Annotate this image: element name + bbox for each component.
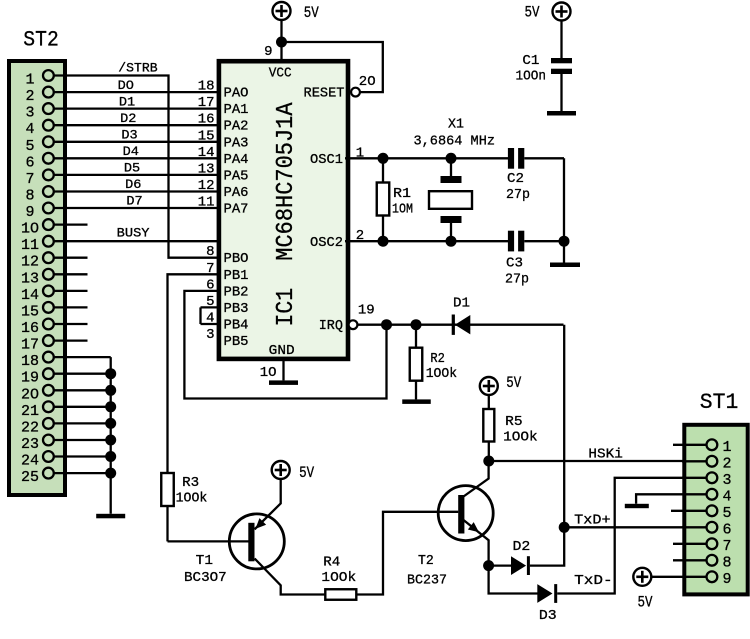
ST2 pin 25 [43, 468, 54, 479]
ST2 pin 1 [43, 70, 54, 81]
junction dot OSC1-X1 [446, 153, 457, 164]
IC U1 MC68HC705J1A body [219, 61, 348, 359]
wire IRQ row [358, 324, 564, 326]
ST2 pin 5 [43, 136, 54, 147]
svg-text:19: 19 [21, 370, 39, 387]
svg-text:PB3: PB3 [224, 301, 249, 317]
svg-text:BC3O7: BC3O7 [184, 571, 227, 586]
svg-text:16: 16 [21, 320, 39, 337]
wire pin10 stub [54, 223, 88, 225]
ST2 pin 24 [43, 451, 54, 462]
svg-text:1OOk: 1OOk [426, 367, 457, 382]
svg-text:6: 6 [25, 154, 34, 171]
svg-text:17: 17 [21, 337, 39, 354]
ST1 pin 4 [707, 489, 718, 500]
wire pin15 stub [54, 306, 88, 308]
transistor T1 circle [229, 514, 284, 569]
wire D2 to TxD+ corner [530, 527, 564, 565]
svg-text:TxD-: TxD- [574, 574, 613, 589]
wire emitter to D3 [489, 566, 538, 594]
svg-text:ST1: ST1 [700, 389, 739, 415]
svg-text:D3: D3 [539, 609, 557, 624]
svg-text:PA4: PA4 [224, 152, 249, 168]
diode D3 [537, 584, 552, 603]
wire D4 [54, 157, 217, 159]
svg-text:24: 24 [21, 453, 39, 470]
svg-text:18: 18 [21, 353, 39, 370]
svg-text:T1: T1 [196, 554, 213, 569]
ST2 pin 6 [43, 153, 54, 164]
connector ST2 [9, 61, 65, 495]
junction dot T2 emitter [483, 560, 494, 571]
svg-text:5V: 5V [304, 4, 320, 22]
wire VCC pin9 [280, 42, 282, 62]
svg-text:T2: T2 [418, 554, 434, 569]
wire emitter to D2 [489, 564, 512, 566]
junction dot rail pin22 [105, 418, 116, 429]
svg-text:PA7: PA7 [224, 202, 249, 218]
pin circle RESET [351, 88, 360, 97]
svg-text:R1: R1 [393, 186, 411, 202]
svg-text:5: 5 [722, 505, 731, 522]
ST2 pin 22 [43, 418, 54, 429]
ST1 pin 9 [707, 571, 718, 582]
svg-text:DO: DO [118, 78, 135, 93]
wire D7 [54, 207, 217, 209]
junction dot OSC2-X1 [446, 236, 457, 247]
wire D2 [54, 124, 217, 126]
ST2 pin 11 [43, 236, 54, 247]
wire 5V to C1 [560, 20, 562, 58]
resistor R2 [415, 325, 417, 348]
svg-text:9: 9 [722, 571, 731, 588]
svg-text:9: 9 [25, 204, 34, 221]
wire OSC2 row [345, 240, 509, 242]
wire ST1 pin8 stub [673, 559, 706, 561]
svg-text:PBO: PBO [224, 251, 249, 267]
wire GND pin10 [282, 360, 284, 381]
junction dot HSKi [483, 456, 494, 467]
ST2 pin 2 [43, 87, 54, 98]
T1 emitter arrow [255, 518, 266, 529]
T2 base bar [458, 495, 464, 534]
wire D0 [54, 91, 217, 93]
ST2 pin 14 [43, 286, 54, 297]
wire D1 [54, 107, 217, 109]
wire pin19 to ground rail [54, 373, 111, 375]
ST1 pin 5 [707, 505, 718, 516]
ST1 pin 8 [707, 555, 718, 566]
svg-text:5V: 5V [299, 464, 315, 482]
capacitor C2 [508, 148, 514, 169]
svg-text:PB2: PB2 [224, 284, 249, 300]
svg-text:1OOk: 1OOk [321, 571, 356, 586]
wire PB2 to R3 [168, 274, 218, 473]
wire D1 to TxD+ riser [563, 325, 565, 528]
ST2 pin 4 [43, 120, 54, 131]
svg-text:C3: C3 [506, 255, 523, 271]
svg-text:11: 11 [21, 237, 39, 254]
wire ground rail vertical [110, 357, 112, 514]
svg-text:X1: X1 [448, 117, 464, 133]
svg-text:PAO: PAO [224, 86, 249, 102]
svg-text:C2: C2 [507, 171, 524, 187]
svg-text:22: 22 [21, 419, 39, 436]
wire D6 [54, 190, 217, 192]
ST2 pin 7 [43, 170, 54, 181]
svg-text:25: 25 [21, 469, 39, 486]
ST1 pin 6 [707, 522, 718, 533]
svg-text:27p: 27p [506, 187, 530, 203]
wire pin13 stub [54, 273, 88, 275]
svg-text:1: 1 [25, 72, 34, 89]
svg-text:27p: 27p [505, 272, 529, 288]
pin circle IRQ [349, 320, 358, 329]
junction dot rail pin23 [105, 435, 116, 446]
svg-text:2O: 2O [21, 386, 39, 403]
wire C2-C3 vertical [563, 158, 565, 241]
svg-text:1O: 1O [21, 221, 39, 238]
svg-text:15: 15 [21, 303, 39, 320]
diode D1 [452, 315, 455, 335]
ST1 pin 2 [707, 456, 718, 467]
wire pin16 stub [54, 323, 88, 325]
svg-text:D2: D2 [120, 111, 136, 126]
T1 base bar [248, 523, 254, 562]
svg-text:4: 4 [722, 488, 731, 505]
svg-text:19: 19 [358, 303, 375, 319]
svg-text:PA2: PA2 [224, 119, 249, 135]
ST2 pin 10 [43, 219, 54, 230]
wire RESET loop [286, 42, 383, 92]
wire to ground OSC [563, 241, 565, 262]
ST2 pin 15 [43, 302, 54, 313]
svg-text:GND: GND [269, 343, 295, 359]
svg-text:OSC1: OSC1 [310, 152, 343, 168]
ST2 pin 3 [43, 103, 54, 114]
svg-text:2: 2 [25, 88, 34, 105]
svg-text:HSKi: HSKi [588, 447, 622, 462]
svg-text:23: 23 [21, 436, 39, 453]
svg-text:D3: D3 [121, 128, 137, 143]
resistor R5 [488, 394, 490, 409]
junction dot OSC2-R1 [378, 236, 389, 247]
svg-text:BUSY: BUSY [117, 226, 150, 241]
wire pin21 to ground rail [54, 406, 111, 408]
wire pin20 to ground rail [54, 389, 111, 391]
ST2 pin 20 [43, 385, 54, 396]
junction dot rail pin20 [105, 385, 116, 396]
wire pin25 to ground rail [54, 472, 111, 474]
wire pin22 to ground rail [54, 422, 111, 424]
wire ST1 pin7 stub [673, 543, 706, 545]
T1 emitter wire to 5V [255, 479, 281, 530]
ST2 pin 23 [43, 435, 54, 446]
svg-text:2O: 2O [359, 74, 376, 90]
svg-text:RESET: RESET [304, 85, 345, 101]
wire pin17 stub [54, 339, 88, 341]
power 5V at R5 [480, 377, 498, 395]
svg-text:TxD+: TxD+ [574, 514, 610, 529]
ground symbol IC GND [269, 380, 298, 385]
wire C3 to junction [524, 240, 564, 242]
crystal X1 [450, 158, 452, 176]
power 5V at C1 [553, 3, 571, 21]
resistor R3 [161, 473, 174, 506]
ST2 pin 17 [43, 335, 54, 346]
wire pin23 to ground rail [54, 439, 111, 441]
svg-text:1: 1 [722, 439, 731, 456]
svg-text:/STRB: /STRB [118, 61, 157, 76]
ground symbol C1 [547, 111, 576, 116]
wire R3 to T1 base [168, 540, 250, 542]
ST1 pin 1 [707, 439, 718, 450]
svg-text:C1: C1 [522, 53, 539, 69]
svg-text:9: 9 [264, 44, 272, 60]
svg-text:7: 7 [722, 538, 731, 555]
T2 emitter arrow [468, 522, 479, 532]
wire ST1 pin1 stub [673, 444, 706, 446]
svg-text:8: 8 [722, 554, 731, 571]
T2 emitter wire [464, 520, 489, 566]
wire 5V stem [280, 20, 282, 42]
power 5V at T1 [272, 461, 290, 479]
svg-text:3,6864 MHz: 3,6864 MHz [414, 134, 496, 150]
svg-text:R3: R3 [182, 476, 199, 491]
resistor R1 [382, 158, 384, 182]
svg-text:PA6: PA6 [224, 185, 249, 201]
T1 collector wire [255, 559, 326, 595]
wire BUSY pin11 to PB0 [54, 240, 217, 242]
svg-text:PA3: PA3 [224, 135, 249, 151]
svg-text:PB1: PB1 [224, 268, 249, 284]
wire C1 to ground [560, 74, 562, 111]
svg-text:PB4: PB4 [224, 318, 249, 334]
wire OSC1 row [345, 157, 509, 159]
T2 collector wire [464, 461, 489, 497]
ST1 pin 7 [707, 538, 718, 549]
wire D5 [54, 174, 217, 176]
svg-text:8: 8 [25, 188, 34, 205]
wire ST1 pin2 HSKi segment [682, 460, 706, 462]
svg-text:OSC2: OSC2 [310, 235, 343, 251]
ST1 pin 3 [707, 472, 718, 483]
capacitor C1 [551, 58, 572, 63]
svg-text:R5: R5 [505, 415, 522, 430]
svg-text:D5: D5 [124, 161, 140, 176]
svg-text:D1: D1 [119, 94, 136, 109]
svg-text:13: 13 [21, 270, 39, 287]
svg-text:ST2: ST2 [23, 27, 59, 53]
wire pin14 stub [54, 290, 88, 292]
svg-text:1OOk: 1OOk [176, 492, 208, 507]
svg-text:6: 6 [722, 521, 731, 538]
wire TxD+ to ST1 pin6 [564, 526, 705, 528]
ST2 pin 13 [43, 269, 54, 280]
svg-text:5V: 5V [506, 374, 522, 392]
power 5V at ST1 pin9 [633, 568, 651, 586]
ST2 pin 12 [43, 252, 54, 263]
svg-text:2: 2 [722, 455, 731, 472]
svg-text:D6: D6 [125, 177, 141, 192]
svg-text:5: 5 [25, 138, 34, 155]
svg-text:D7: D7 [126, 194, 142, 209]
svg-text:21: 21 [21, 403, 39, 420]
wire pin12 stub [54, 257, 88, 259]
svg-text:D2: D2 [513, 540, 531, 555]
svg-text:5V: 5V [638, 594, 654, 612]
svg-text:3: 3 [206, 327, 214, 343]
ground symbol ST2 rail [96, 514, 125, 519]
wire ST1 pin5 stub [671, 510, 706, 512]
svg-text:1O: 1O [260, 365, 277, 381]
junction dot OSC1-R1 [378, 153, 389, 164]
junction dot IRQ-R2 [411, 319, 422, 330]
svg-text:14: 14 [21, 287, 39, 304]
signal ground bar pin4 [625, 504, 649, 508]
transistor T2 circle [438, 486, 493, 541]
ST2 pin 19 [43, 368, 54, 379]
wire ST1 pin6 segment [682, 526, 706, 528]
ST2 pin 21 [43, 401, 54, 412]
svg-text:D4: D4 [123, 144, 140, 159]
svg-text:R4: R4 [323, 556, 340, 571]
svg-text:PA5: PA5 [224, 168, 249, 184]
svg-text:MC68HC705J1A: MC68HC705J1A [273, 102, 300, 261]
wire R4 to T2 base [356, 512, 458, 595]
svg-text:5V: 5V [525, 4, 541, 22]
junction dot rail pin25 [105, 468, 116, 479]
svg-text:PA1: PA1 [224, 102, 249, 118]
svg-text:PB5: PB5 [224, 334, 249, 350]
wire D3 [54, 141, 217, 143]
wire PB3 to IRQ [184, 291, 386, 399]
svg-text:1OOn: 1OOn [516, 69, 547, 85]
ST2 pin 16 [43, 319, 54, 330]
capacitor C3 [508, 231, 514, 252]
wire HSKi [489, 460, 706, 462]
ST2 pin 8 [43, 186, 54, 197]
svg-text:1OOk: 1OOk [503, 431, 538, 446]
svg-text:3: 3 [25, 105, 34, 122]
wire PB4-PB5 tie [199, 307, 201, 324]
ST2 pin 9 [43, 203, 54, 214]
junction dot VCC [276, 37, 287, 48]
junction dot rail pin19 [105, 368, 116, 379]
wire C2 to corner [524, 157, 564, 159]
wire ST1 pin4 to signal gnd [636, 494, 705, 504]
svg-text:VCC: VCC [269, 66, 292, 82]
diode D2 [511, 556, 526, 575]
wire ST1 pin3 segment [682, 477, 706, 479]
power 5V at VCC [273, 2, 291, 20]
svg-text:4: 4 [25, 121, 34, 138]
wire PB4 stub [201, 306, 218, 308]
junction dot rail pin24 [105, 451, 116, 462]
svg-text:7: 7 [25, 171, 34, 188]
wire pin18 to ground rail [54, 356, 111, 358]
wire PB5 stub [201, 323, 218, 325]
resistor R4 [325, 589, 356, 600]
junction dot C2C3 [559, 236, 570, 247]
svg-text:BC237: BC237 [407, 574, 447, 589]
wire pin24 to ground rail [54, 455, 111, 457]
wire TxD- to ST1 pin3 [557, 478, 705, 594]
junction dot rail pin21 [105, 401, 116, 412]
svg-text:12: 12 [21, 254, 39, 271]
svg-text:3: 3 [722, 472, 731, 489]
connector ST1 [684, 425, 747, 595]
junction dot IRQ-PB3 [381, 319, 392, 330]
wire /STRB pin1 to PB1 [54, 76, 217, 258]
ground symbol R2 [402, 399, 431, 404]
svg-text:D1: D1 [453, 296, 470, 312]
ground symbol OSC [550, 263, 580, 268]
junction dot TxD+ [559, 522, 570, 533]
svg-text:1OM: 1OM [392, 201, 413, 217]
svg-text:IC1: IC1 [273, 288, 300, 327]
svg-text:IRQ: IRQ [319, 318, 343, 334]
ST2 pin 18 [43, 352, 54, 363]
svg-text:R2: R2 [430, 352, 445, 367]
